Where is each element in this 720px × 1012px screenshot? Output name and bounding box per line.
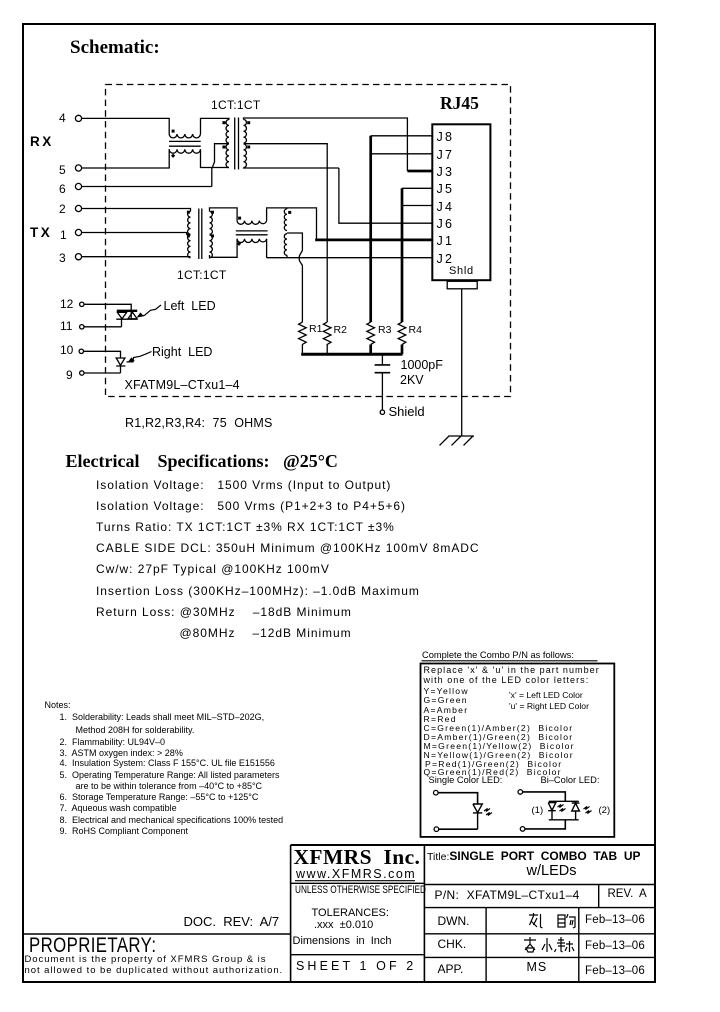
LED D5 (1) down [548, 801, 556, 820]
LED D1 D2 bicolor left: wire from pin 12 [85, 304, 132, 319]
wire L2 top to W3 top and J1 corner [267, 208, 317, 240]
wire pin 10 to LED D3 [84, 351, 121, 358]
wire T1 secondary center tap to R2 [244, 144, 328, 322]
single LED bottom terminal [434, 827, 439, 832]
T2 primary dots [187, 211, 190, 214]
signature DWN (Chinese) [529, 913, 575, 928]
wire W3 center tap to R1 with crossover jog [287, 233, 302, 322]
wire W3 bottom to J2 line [286, 255, 288, 257]
L1 polarity dot bottom [171, 154, 175, 158]
winding W3 center-tap coil [284, 209, 287, 255]
proprietary box top edge [23, 933, 291, 935]
right col divider under CHK [424, 956, 655, 958]
resistor R4 [398, 322, 406, 344]
resistor R3 [367, 322, 375, 344]
capacitor C1 lower lead to shield node [381, 373, 383, 411]
wire T1 secondary bottom to J6 [244, 168, 433, 224]
wire pin2 to T2 primary top [81, 209, 190, 212]
transformer T1 secondary winding [244, 120, 247, 168]
chassis ground symbol [440, 436, 475, 445]
left col divider above SHEET [291, 954, 425, 956]
RJ45 shield tab [447, 281, 477, 289]
pin 3 terminal [75, 254, 81, 260]
W3 stub to top rail [286, 208, 288, 209]
single LED top wire [438, 793, 478, 804]
resistor R2 [323, 322, 331, 354]
capacitor C1 1000pF lead [381, 354, 383, 365]
wire pin5 to L1 bottom winding [81, 149, 169, 168]
resistor R4 lower stub thick [401, 345, 404, 355]
capacitor C1 plates [375, 365, 391, 373]
L2 core lines [236, 231, 268, 235]
right col divider under Title [424, 884, 655, 886]
T1 primary dots [222, 121, 225, 124]
pin 9 terminal [80, 371, 84, 375]
pin 6 terminal [75, 183, 81, 189]
wire pin4 to common-mode choke L1 [81, 118, 169, 134]
date column divider [578, 908, 580, 982]
pin 1 terminal [75, 229, 81, 235]
common-mode choke L1 bottom winding [169, 149, 200, 153]
bicolor LED example: terminal [518, 790, 523, 795]
node bus J8 J7 to R3 (thick) [369, 136, 372, 322]
LED D5 light arrows [558, 805, 566, 812]
wire LED D3 to pin 9 [84, 372, 121, 374]
wire J8 [371, 135, 433, 137]
LED D6 (2) up [572, 801, 580, 820]
right col divider under DWN [424, 933, 655, 935]
leader arrow Right LED [127, 352, 152, 362]
pin 4 terminal [75, 115, 81, 121]
combo P/N instruction box [421, 664, 615, 837]
pin 11 terminal [80, 325, 84, 329]
RJ45 connector J1 body [432, 124, 490, 280]
L1 polarity dot top [172, 130, 175, 133]
single color LED example: terminal [434, 790, 439, 795]
bicolor bottom wire [525, 820, 565, 829]
wire J7 [371, 153, 433, 155]
wire L1 top winding to transformer T1 primary top [201, 118, 230, 134]
single LED bottom wire [439, 828, 478, 830]
wire J4 [402, 205, 432, 207]
LED D1 (down) [117, 312, 126, 318]
bicolor top wire [523, 792, 566, 801]
L1 core lines [169, 141, 201, 146]
common-mode choke L1 top winding [169, 134, 200, 138]
wire T2 secondary top to choke L2 [210, 208, 238, 221]
pin 12 terminal [80, 302, 84, 306]
T1 core [235, 118, 239, 170]
common-mode choke L2 top winding [237, 221, 266, 225]
wire pin1 to T2 primary center tap [81, 233, 190, 235]
L2 polarity dot top [238, 217, 241, 220]
title block left edge [290, 845, 292, 982]
pin 5 terminal [75, 165, 81, 171]
leader arrow Left LED [138, 305, 161, 317]
wire bottom rail to pin 11 [85, 319, 122, 327]
left col divider under www [291, 882, 425, 884]
node Shield terminal [380, 410, 384, 414]
bicolor top bar [549, 800, 579, 802]
LED D4 light arrows [484, 809, 492, 816]
wire L2 bottom to J2 [267, 239, 433, 258]
transformer T1 primary winding [226, 120, 229, 168]
LED D2 (up) [128, 312, 137, 318]
T1 secondary dots [247, 121, 250, 124]
bicolor LED cathode bars (top) [117, 310, 137, 312]
W3 polarity dot [288, 211, 291, 214]
wire pin6 [81, 186, 212, 188]
pin 10 terminal [79, 349, 83, 353]
bicolor LED bottom rail [116, 318, 137, 320]
wire T1 primary center tap to pin 6 [212, 144, 229, 187]
L2 polarity dot bottom [237, 242, 241, 246]
title block main divider [423, 845, 425, 982]
bicolor bottom terminal [520, 827, 525, 832]
wire shield tab to chassis ground [461, 289, 463, 436]
www.XFMRS.com underline [295, 880, 415, 882]
wire J5 [402, 187, 432, 189]
schematic dashed boundary [106, 85, 511, 397]
REV cell divider [598, 885, 600, 908]
common-mode choke L2 bottom winding [237, 239, 266, 243]
right col divider under P/N [424, 907, 655, 909]
wire L1 bottom winding to T1 primary bottom [201, 149, 230, 167]
termination bus thick [301, 353, 402, 356]
wire T1 secondary top to J3 corner [244, 118, 408, 171]
transformer T2 secondary winding [210, 212, 213, 258]
resistor R3 lower stub thick [369, 345, 372, 355]
wire pin3 to T2 primary bottom [81, 256, 190, 258]
wire J1 thick [315, 239, 432, 242]
combo title underline [422, 660, 598, 662]
LED D4 single example [473, 804, 482, 829]
bicolor bottom bar [549, 819, 579, 821]
title block top edge [291, 844, 655, 846]
wire T2 secondary bottom to L2 bottom winding [210, 239, 238, 259]
name column divider [485, 908, 487, 982]
signature CHK (Chinese) [524, 937, 574, 952]
wire J3 thick segment [407, 170, 432, 173]
T2 core [199, 209, 202, 260]
T2 secondary dots [211, 211, 214, 214]
LED D3 right single [116, 358, 125, 373]
resistor R1 [299, 322, 307, 354]
pin 2 terminal [75, 205, 81, 211]
LED D6 light arrows [584, 807, 592, 814]
transformer T2 primary winding [188, 212, 191, 258]
node bus J5 J4 to R4 (thick) [401, 188, 404, 322]
